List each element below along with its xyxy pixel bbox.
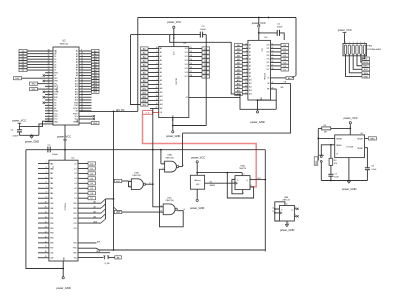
U4 PHI2 pin long wire: [78, 248, 265, 250]
svg-text:power_GND: power_GND: [166, 134, 180, 138]
svg-text:29: 29: [48, 74, 50, 76]
svg-text:14: 14: [272, 54, 274, 56]
svg-text:R/W: R/W: [73, 243, 77, 245]
bus exit label A13: [114, 207, 117, 210]
svg-text:power_GND: power_GND: [280, 228, 294, 232]
svg-text:14: 14: [245, 82, 247, 84]
svg-text:8: 8: [46, 192, 47, 194]
wire left rail down to VIA ground: [26, 150, 63, 269]
svg-text:10: 10: [156, 47, 158, 49]
svg-text:D1: D1: [54, 53, 56, 55]
svg-text:10: 10: [81, 52, 83, 54]
svg-text:CA1: CA1: [50, 202, 53, 205]
svg-text:power_VCC: power_VCC: [12, 119, 26, 123]
svg-text:RS0: RS0: [73, 203, 76, 205]
svg-text:1: 1: [157, 83, 158, 85]
svg-text:9: 9: [129, 180, 130, 182]
svg-text:A13: A13: [94, 220, 97, 223]
svg-text:NCo: NCo: [75, 119, 78, 121]
svg-text:6: 6: [251, 185, 252, 187]
svg-text:CT: CT: [336, 154, 338, 156]
power_GND flag below U6: [256, 111, 258, 113]
svg-text:30: 30: [48, 77, 50, 79]
svg-text:11: 11: [272, 43, 274, 45]
U1 VCC pin wire up: [173, 28, 175, 46]
X1 GND wire down: [196, 189, 198, 199]
svg-text:10: 10: [129, 185, 131, 187]
IC U6 62256 RAM: [248, 40, 271, 100]
svg-text:15: 15: [190, 63, 192, 65]
svg-text:18: 18: [45, 251, 47, 253]
svg-text:22: 22: [81, 85, 83, 87]
power_GND flag below U1: [172, 131, 174, 133]
svg-text:39: 39: [48, 101, 50, 103]
svg-text:12: 12: [156, 99, 158, 101]
wire U6 OE down to gate U3A output net: [183, 83, 291, 133]
svg-text:PA6: PA6: [50, 192, 53, 195]
svg-text:15: 15: [245, 78, 247, 80]
svg-text:WE: WE: [267, 89, 269, 91]
svg-text:38: 38: [48, 98, 50, 100]
svg-text:PB4: PB4: [50, 233, 53, 235]
svg-text:74HCT00: 74HCT00: [132, 175, 141, 177]
svg-text:15: 15: [272, 57, 274, 59]
svg-text:CB1: CB1: [50, 253, 53, 255]
svg-text:44: 44: [48, 115, 50, 117]
svg-text:8: 8: [150, 182, 151, 184]
wire rail right drop to RAM CS: [295, 18, 297, 76]
svg-text:A0: A0: [94, 200, 96, 203]
svg-text:74HCT00: 74HCT00: [165, 200, 174, 202]
U6 OE pin wire: [271, 82, 291, 84]
svg-text:CS2: CS2: [73, 228, 76, 230]
svg-text:15: 15: [81, 66, 83, 68]
U7 RESET output with net label: [365, 137, 369, 139]
svg-text:9: 9: [46, 197, 47, 199]
svg-text:14: 14: [171, 119, 173, 121]
power_GND flag below C1: [30, 135, 33, 137]
svg-text:D3: D3: [75, 178, 77, 180]
svg-text:power_VCC: power_VCC: [252, 21, 266, 25]
svg-text:RES: RES: [370, 138, 375, 140]
svg-text:7: 7: [157, 59, 158, 61]
svg-text:PHI2O: PHI2O: [73, 113, 79, 115]
svg-text:D5: D5: [54, 64, 56, 66]
svg-text:PB5: PB5: [50, 238, 53, 240]
svg-text:PB2: PB2: [50, 223, 53, 225]
wire A-bus from CPU PHI2 pin: [79, 110, 138, 112]
svg-text:CLK: CLK: [257, 178, 262, 180]
svg-text:1: 1: [246, 75, 247, 77]
svg-text:1M: 1M: [324, 132, 327, 134]
U2 left pins control signals: [45, 72, 53, 74]
svg-text:power_VCC: power_VCC: [57, 134, 71, 138]
svg-text:I/O2: I/O2: [267, 52, 270, 54]
svg-text:4: 4: [246, 64, 247, 66]
svg-text:32: 32: [48, 52, 50, 54]
wire GND rail up to CPU pin: [39, 124, 53, 135]
svg-text:RES: RES: [93, 123, 98, 125]
svg-text:12: 12: [81, 58, 83, 60]
wire second rail drop to U1 A14: [131, 35, 141, 105]
svg-text:D4: D4: [75, 183, 77, 185]
power_GND flag below U5B: [285, 224, 288, 226]
svg-text:8: 8: [157, 55, 158, 57]
svg-text:27: 27: [156, 107, 158, 109]
svg-text:CB2: CB2: [50, 258, 53, 260]
svg-text:26: 26: [48, 69, 50, 71]
svg-text:18: 18: [81, 74, 83, 76]
U3C output feedback loop to U3A input: [160, 169, 184, 227]
power_VCC flag above U6: [258, 25, 260, 27]
svg-text:32: 32: [48, 82, 50, 84]
svg-text:power_GND: power_GND: [56, 286, 70, 290]
svg-text:31: 31: [81, 107, 83, 109]
svg-text:PHI2: PHI2: [73, 248, 77, 250]
svg-text:CA2: CA2: [50, 207, 53, 210]
wire vertical to VIA clock: [113, 111, 115, 250]
U2 left net label NMIB: [30, 87, 38, 90]
svg-text:17: 17: [190, 71, 192, 73]
svg-text:24: 24: [81, 90, 83, 92]
wire second rail VCC: [131, 34, 201, 36]
svg-text:OE: OE: [160, 112, 162, 114]
svg-text:9: 9: [157, 51, 158, 53]
svg-text:RES: RES: [364, 73, 369, 75]
svg-text:PHI1: PHI1: [54, 81, 58, 83]
U1 left pins A0-A14 with net labels: [141, 47, 149, 50]
svg-text:power_VCC: power_VCC: [338, 28, 352, 32]
svg-text:19: 19: [45, 256, 47, 258]
svg-text:PRG: PRG: [367, 46, 372, 48]
svg-text:20: 20: [81, 79, 83, 81]
svg-text:6: 6: [246, 57, 247, 59]
svg-text:CS: CS: [267, 78, 269, 80]
svg-text:62256A: 62256A: [263, 73, 266, 80]
U5A D feedback loop: [232, 180, 243, 194]
U1 right pins D0-D7 with net labels: [189, 48, 202, 50]
svg-text:6: 6: [157, 63, 158, 65]
svg-text:41: 41: [48, 107, 50, 109]
svg-text:17: 17: [45, 246, 47, 248]
svg-text:6: 6: [46, 182, 47, 184]
svg-text:13: 13: [156, 95, 158, 97]
svg-text:PB6: PB6: [50, 243, 53, 245]
svg-text:power_GND: power_GND: [190, 206, 204, 210]
svg-text:29: 29: [48, 60, 50, 62]
svg-text:11: 11: [81, 55, 83, 57]
svg-text:MISO: MISO: [363, 66, 369, 68]
svg-text:RES: RES: [73, 253, 76, 255]
svg-text:13: 13: [245, 85, 247, 87]
svg-text:I/O4: I/O4: [185, 64, 188, 66]
svg-text:14-8: 14-8: [196, 184, 199, 186]
IC U1 28C256 EEPROM: [159, 47, 189, 118]
wire R1 down to reset net: [317, 128, 319, 160]
wire C1 to ground junction: [19, 134, 39, 136]
svg-text:17: 17: [81, 71, 83, 73]
svg-text:42: 42: [48, 109, 50, 111]
svg-text:12: 12: [190, 51, 192, 53]
svg-text:I/O5: I/O5: [267, 62, 270, 64]
wire EEPROM OE loop: [189, 96, 240, 98]
svg-text:RW: RW: [97, 241, 100, 243]
svg-text:PHI2: PHI2: [54, 72, 58, 74]
svg-text:WE: WE: [160, 108, 163, 110]
svg-text:40: 40: [45, 202, 47, 204]
svg-text:10: 10: [45, 212, 47, 214]
U2 left net label RDY: [14, 77, 22, 80]
IC U4 W65C22 VIA: [49, 160, 78, 261]
U3B output wire: [146, 183, 153, 185]
wire U5A Q net vertical: [264, 150, 266, 252]
svg-text:17: 17: [272, 64, 274, 66]
U4 D7 pin with net label: [78, 197, 88, 199]
wire VCC to CPU pin: [19, 121, 53, 126]
svg-text:I/O2: I/O2: [185, 56, 188, 58]
svg-text:23: 23: [81, 88, 83, 90]
U6 right pins D0-D7 with net labels: [271, 44, 282, 46]
svg-text:I/O6: I/O6: [185, 72, 188, 74]
svg-text:power_GND: power_GND: [342, 187, 356, 191]
svg-text:8: 8: [246, 50, 247, 52]
svg-text:100nF: 100nF: [12, 136, 19, 138]
svg-text:36: 36: [48, 93, 50, 95]
svg-text:uAH osc: uAH osc: [194, 179, 201, 182]
svg-text:27: 27: [48, 66, 50, 68]
svg-text:RESET: RESET: [357, 138, 363, 140]
svg-text:28C256: 28C256: [175, 78, 177, 85]
svg-text:14: 14: [156, 91, 158, 93]
wire U1 GND to C3 branch: [173, 125, 206, 127]
svg-text:28: 28: [172, 37, 174, 39]
svg-text:12: 12: [245, 89, 247, 91]
svg-text:15: 15: [156, 87, 158, 89]
U2 right pins A0-A15 with net labels: [79, 50, 92, 52]
svg-text:13: 13: [45, 226, 47, 228]
svg-text:2: 2: [349, 42, 350, 44]
svg-text:10uF: 10uF: [334, 177, 339, 179]
svg-text:RS3: RS3: [73, 218, 76, 220]
svg-text:PB3: PB3: [50, 228, 53, 230]
svg-text:power_GND: power_GND: [25, 140, 39, 144]
U3C bottom input net label: [114, 211, 122, 214]
U4 CS pin local label: [78, 222, 101, 224]
svg-text:A1: A1: [94, 205, 96, 208]
svg-text:MOSI: MOSI: [363, 62, 369, 64]
U3A output wire up to EEPROM/RAM OE: [179, 166, 183, 168]
svg-text:21: 21: [81, 82, 83, 84]
svg-text:PA1: PA1: [50, 167, 53, 170]
svg-text:28: 28: [81, 98, 83, 100]
svg-text:OE: OE: [267, 83, 269, 85]
svg-text:D2: D2: [54, 56, 56, 58]
U3A top input from y150 net: [160, 150, 162, 164]
svg-text:RDY: RDY: [15, 78, 20, 80]
svg-text:D6: D6: [54, 67, 56, 69]
svg-text:O_E: O_E: [145, 113, 150, 115]
resistor R1: [331, 127, 351, 129]
svg-text:D4: D4: [54, 62, 56, 64]
U4 RW pin local label: [78, 242, 97, 244]
svg-text:BE: BE: [54, 108, 56, 110]
svg-text:RESB: RESB: [73, 121, 77, 123]
svg-text:40: 40: [48, 104, 50, 106]
svg-text:A2: A2: [94, 210, 96, 213]
U4 right pins D0-D7 net labels: [78, 163, 88, 165]
svg-text:RWB: RWB: [74, 102, 78, 104]
svg-text:11: 11: [45, 216, 47, 218]
svg-text:CE: CE: [186, 97, 188, 99]
IC U2 W65C02 CPU: [53, 47, 79, 125]
svg-text:CS1: CS1: [73, 223, 76, 225]
U2 left pins D0-D7 with net labels: [19, 49, 27, 52]
wire VCC top rail: [138, 17, 296, 19]
svg-text:NMI: NMI: [32, 89, 36, 91]
svg-text:39: 39: [45, 207, 47, 209]
svg-text:12: 12: [272, 207, 274, 209]
svg-text:2: 2: [157, 79, 158, 81]
svg-text:26: 26: [81, 93, 83, 95]
svg-text:29: 29: [81, 101, 83, 103]
svg-text:IRQ: IRQ: [32, 84, 36, 86]
svg-text:D5: D5: [75, 188, 77, 190]
capacitor C7 10uF: [330, 165, 332, 174]
bus junction on clock net: [113, 198, 115, 200]
svg-text:RESET: RESET: [357, 148, 363, 150]
svg-text:9: 9: [81, 50, 82, 52]
svg-text:RS2: RS2: [73, 213, 76, 215]
svg-text:45: 45: [48, 118, 50, 120]
svg-text:GND: GND: [364, 76, 369, 78]
svg-text:I/O7: I/O7: [267, 69, 270, 71]
svg-text:74HCT00: 74HCT00: [165, 157, 174, 159]
svg-text:D6: D6: [75, 193, 77, 195]
svg-text:KL2VMini4406: KL2VMini4406: [367, 49, 381, 51]
svg-text:I/O4: I/O4: [267, 59, 270, 61]
svg-text:27: 27: [81, 96, 83, 98]
svg-text:11: 11: [245, 92, 247, 94]
svg-text:PB1: PB1: [50, 218, 53, 220]
svg-text:14: 14: [45, 231, 47, 233]
capacitor C6 0.1uF: [365, 167, 370, 169]
svg-text:13: 13: [81, 60, 83, 62]
svg-text:31: 31: [48, 55, 50, 57]
U6 WE pin wire: [271, 88, 277, 90]
svg-text:VSS: VSS: [54, 116, 57, 118]
svg-text:2: 2: [246, 71, 247, 73]
svg-text:10: 10: [286, 204, 288, 206]
svg-text:7: 7: [46, 187, 47, 189]
wire C3 down to U1 GND branch: [205, 35, 207, 126]
connector J1 PRG header: [343, 44, 367, 56]
svg-text:12: 12: [45, 221, 47, 223]
svg-text:30: 30: [81, 104, 83, 106]
svg-text:U5A: U5A: [240, 164, 245, 167]
U2 right control pin stubs: [79, 94, 92, 96]
svg-text:I/O7: I/O7: [185, 76, 188, 78]
svg-text:I/O6: I/O6: [267, 66, 270, 68]
svg-text:W65C22: W65C22: [64, 203, 66, 210]
oscillator X1 1MHZ: [190, 175, 204, 189]
svg-text:power_VCC: power_VCC: [167, 20, 181, 24]
svg-text:PA0: PA0: [50, 162, 53, 165]
svg-text:3: 3: [157, 75, 158, 77]
svg-text:14: 14: [81, 63, 83, 65]
svg-text:13: 13: [272, 50, 274, 52]
svg-text:33: 33: [48, 85, 50, 87]
svg-text:16: 16: [190, 67, 192, 69]
svg-text:12: 12: [272, 47, 274, 49]
U7 RESET2 pin wire to C6: [365, 148, 368, 168]
U1 OE red net label W_E: [143, 111, 153, 115]
svg-text:3: 3: [46, 167, 47, 169]
svg-text:37: 37: [48, 96, 50, 98]
svg-text:I/O5: I/O5: [185, 68, 188, 70]
U4 right pins RS0-RS3 local labels with bus entries: [78, 202, 101, 204]
U4 left pins PA0-PA7 CA PB0-PB7 CB: [38, 163, 49, 165]
svg-text:PA5: PA5: [50, 187, 53, 190]
pushbutton SW1: [320, 156, 322, 158]
svg-text:11: 11: [190, 47, 192, 49]
wire U1 WE pin down through U3B output to U3C input: [153, 109, 160, 207]
U7 SENSE wire: [318, 137, 334, 139]
U6 GND pin wire down: [257, 100, 259, 111]
svg-text:28: 28: [48, 63, 50, 65]
resistor R2: [330, 145, 332, 159]
svg-text:A3: A3: [94, 215, 96, 218]
U2 right pins no-connect marks: [79, 115, 93, 117]
U4 VCC pin from power flag shared with U2: [64, 125, 66, 160]
bus RS vertical: [105, 199, 107, 219]
svg-text:22: 22: [272, 82, 274, 84]
power_GND flag below U7: [347, 180, 350, 182]
svg-text:13: 13: [190, 55, 192, 57]
svg-text:D3: D3: [54, 59, 56, 61]
U2 left net label IRQB: [30, 82, 38, 85]
svg-text:16: 16: [272, 61, 274, 63]
svg-text:47k: 47k: [334, 163, 337, 165]
wire highlighted red net OE: [143, 114, 257, 187]
svg-text:0.1uF: 0.1uF: [371, 169, 377, 171]
svg-text:RS1: RS1: [73, 208, 76, 210]
U3B input net label: [114, 179, 122, 182]
U6 left pins A0-A14 with net labels: [235, 43, 243, 46]
U5B input tie loop: [275, 208, 280, 210]
svg-text:4: 4: [46, 172, 47, 174]
svg-text:PA3: PA3: [50, 177, 53, 180]
svg-text:7: 7: [246, 54, 247, 56]
svg-text:S_IN6: S_IN6: [105, 263, 110, 265]
net label RESB vertical: [314, 157, 318, 165]
svg-text:PA7: PA7: [50, 197, 53, 200]
svg-text:2: 2: [46, 162, 47, 164]
svg-text:ML: ML: [54, 86, 56, 88]
svg-text:I/O0: I/O0: [185, 48, 188, 50]
svg-text:1: 1: [163, 162, 164, 164]
svg-text:16: 16: [45, 241, 47, 243]
svg-text:16: 16: [81, 69, 83, 71]
svg-text:74HC74: 74HC74: [282, 200, 290, 202]
svg-text:D7: D7: [75, 198, 77, 200]
svg-text:NCo: NCo: [75, 116, 78, 118]
svg-text:PHI2: PHI2: [74, 105, 78, 107]
svg-text:19: 19: [81, 77, 83, 79]
svg-text:U3C: U3C: [167, 197, 172, 199]
svg-text:SCK: SCK: [364, 69, 369, 71]
svg-text:PB7: PB7: [50, 248, 53, 250]
wire U6 WE loop: [275, 89, 277, 109]
